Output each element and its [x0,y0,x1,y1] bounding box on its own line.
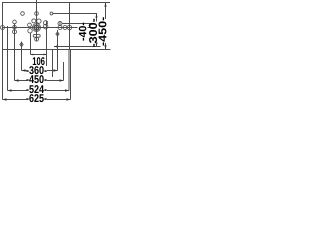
plate outline [3,3,70,50]
left edge keyhole [1,26,5,30]
dim line 524 [8,90,70,92]
left column vertical line down to 450 arrow [14,24,16,81]
dim line 450 right [105,3,107,50]
extension line y23.5 [62,23,91,25]
bottom extension line right [70,49,111,51]
extension line y46.5 [54,46,101,48]
SW satellite circle [28,29,32,33]
right mid top keyhole circle [58,22,62,26]
bottom slot [33,35,40,38]
arrow 450b right [60,79,64,81]
vertical centerline [36,0,38,42]
arrow 300 top [95,14,97,18]
E keyhole vertical extension [46,21,48,67]
dim line 40 [89,24,91,28]
left column circle 3 [13,30,17,34]
label 450 bottom [26,75,46,83]
diamond left [20,42,23,46]
arrow 450b left [15,79,19,81]
dim line 360 [22,70,58,72]
hole top-left small circle [21,12,25,16]
right edge keyhole [67,25,71,29]
horizontal axis line y27.5 [3,27,92,29]
extension line x2.5 below plate [2,50,4,100]
dim line 300 [96,14,98,47]
arrow 450right bottom [104,45,106,49]
arrow 106 right [44,54,47,56]
bottom slot circle [35,37,39,41]
extension line x52.5 [52,50,54,78]
NW satellite circle [28,23,32,27]
label 106 [33,57,45,65]
label 360 [26,66,46,74]
label 450 right [98,17,106,45]
arrow 625 left [3,98,7,100]
top extension line right [70,2,111,4]
inner fold line x7.5 [7,26,9,91]
arrow 40 bottom [89,25,91,27]
diamond right extension line [57,30,59,71]
arrow 524 right [65,89,69,91]
extension line x71 below plate (625) [70,50,72,100]
arrow 524 left [8,89,12,91]
label 625 [26,94,46,102]
central target inner circle [34,25,39,30]
extension line x69 below plate (524) [68,50,70,91]
dim line 106 [31,54,47,56]
arrow 625 right [67,98,71,100]
central cluster top pair circles [32,19,36,23]
dim line 450 bottom [15,80,64,82]
diamond right [56,32,59,36]
arrow y46.5 leader [54,45,58,47]
arrow 360 right [54,69,58,71]
arrow 106 left [31,54,34,56]
hole top-center small circle [35,12,39,16]
extension line x63.5 [63,62,65,81]
central target outer circle [33,24,41,32]
arrow 450right top [104,3,106,7]
arrow 360 left [22,69,26,71]
arrow 40 top [89,24,91,26]
diamond left extension line [21,42,23,71]
label 524 [26,85,46,93]
dim line 625 [3,99,71,101]
label 300 [89,19,97,47]
hole top-right small circle [50,12,53,15]
left column circle 2 [13,25,17,29]
right mid circles row [58,26,62,30]
label 40 [79,23,87,41]
left column circle 1 [13,20,17,24]
SW extension line down [30,33,32,55]
E keyhole circles [44,21,48,25]
arrow 300 bottom [95,43,97,47]
extension line y13.5 [53,13,97,15]
